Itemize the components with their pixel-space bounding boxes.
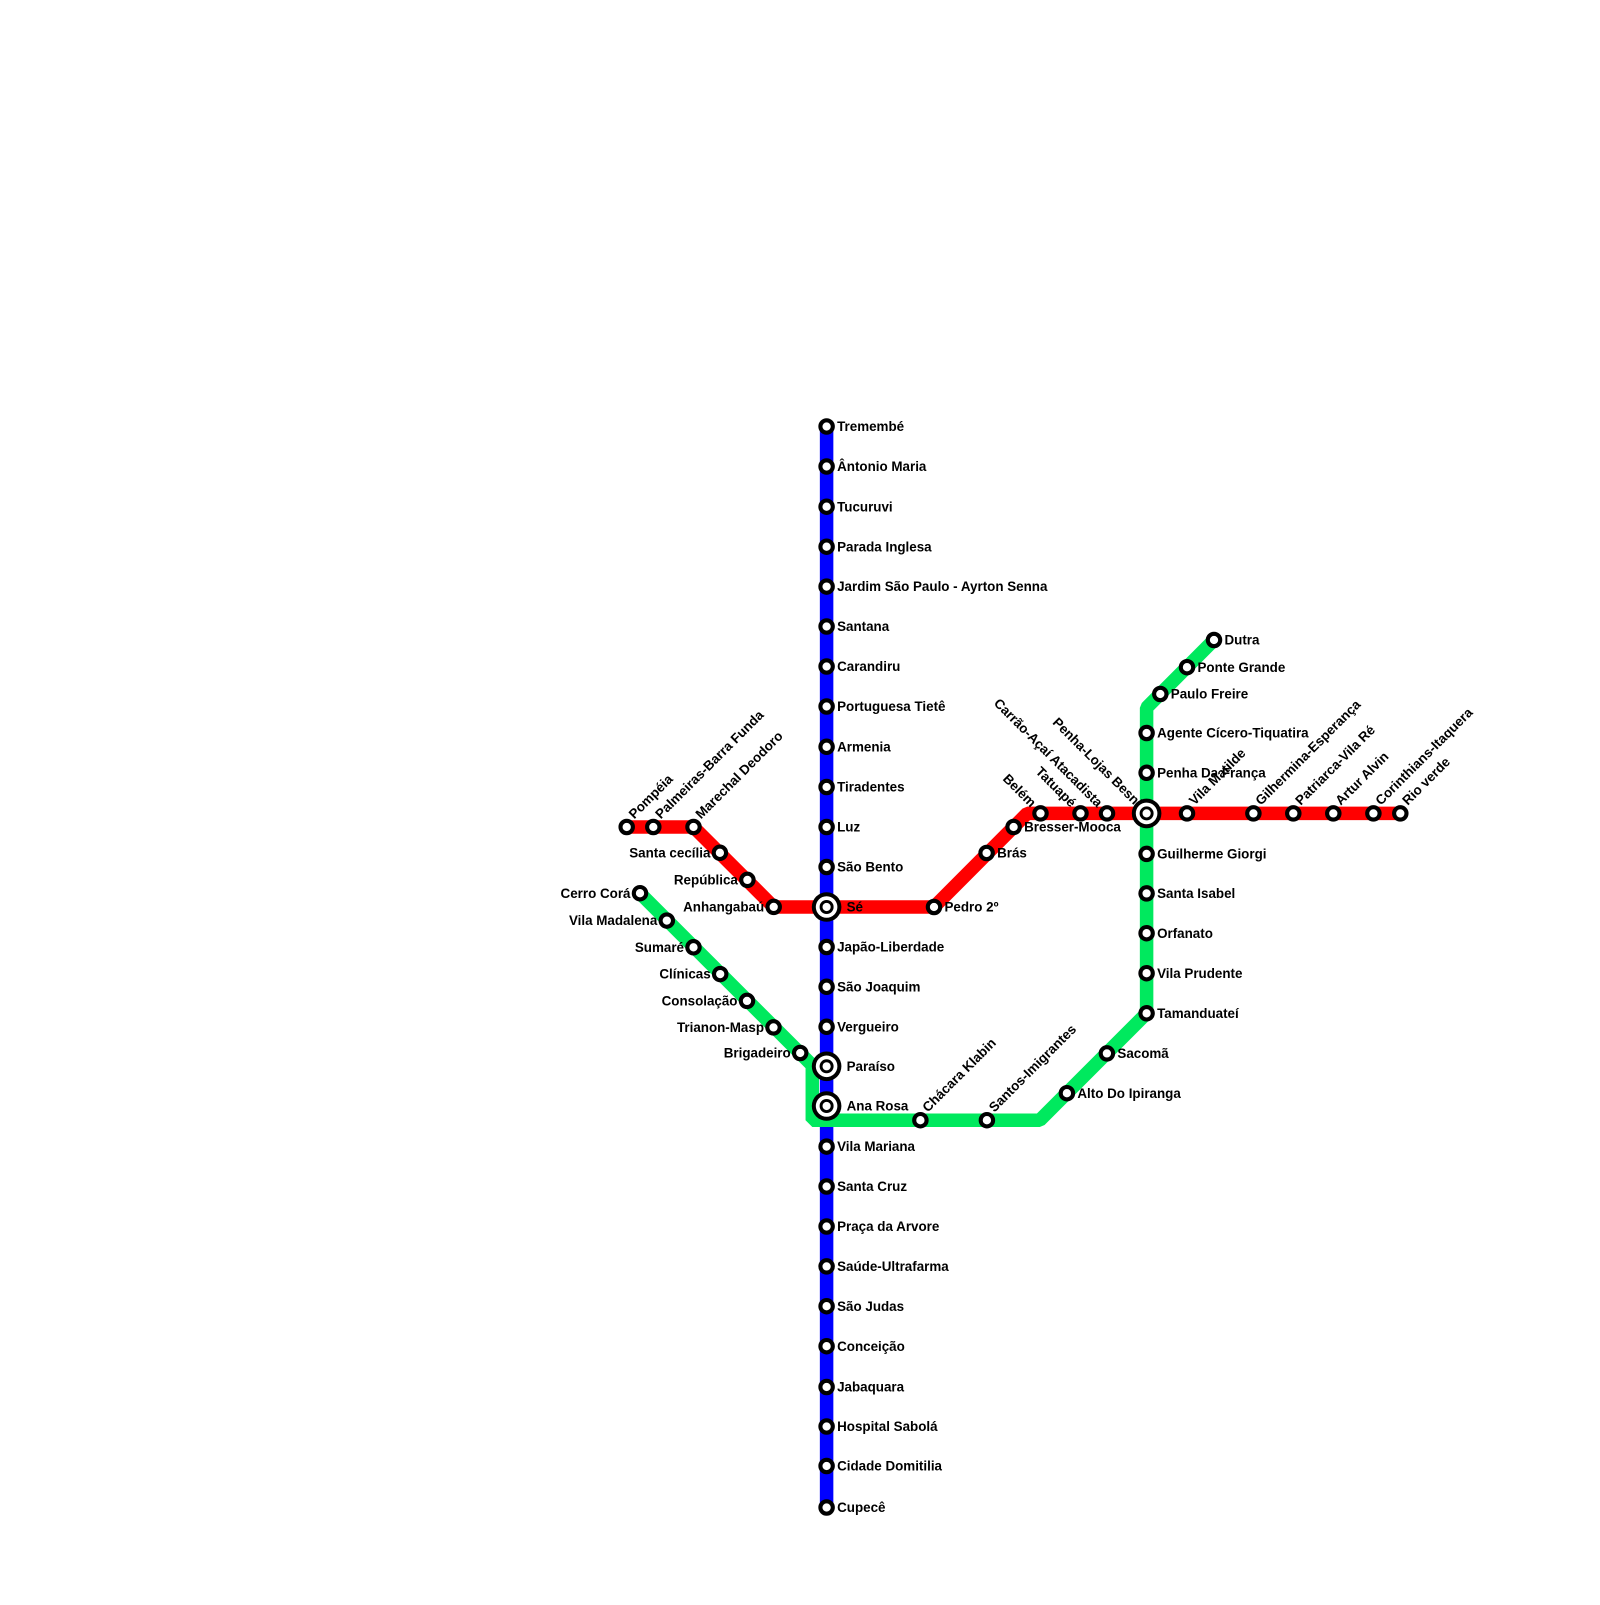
station Santana — [820, 619, 889, 634]
station Japão-Liberdade — [820, 940, 944, 955]
station Guilherme Giorgi — [1140, 847, 1266, 862]
svg-text:Jabaquara: Jabaquara — [837, 1380, 905, 1395]
station Belém — [1000, 771, 1047, 820]
station Tiradentes — [820, 780, 904, 795]
svg-text:Vila Mariana: Vila Mariana — [837, 1139, 915, 1154]
station Portuguesa Tietê — [820, 699, 945, 714]
svg-text:Ântonio Maria: Ântonio Maria — [837, 459, 927, 474]
svg-text:Tucuruvi: Tucuruvi — [837, 499, 893, 514]
svg-text:Japão-Liberdade: Japão-Liberdade — [837, 940, 944, 955]
svg-text:Santa Isabel: Santa Isabel — [1157, 886, 1235, 901]
svg-text:Ponte Grande: Ponte Grande — [1198, 660, 1286, 675]
svg-text:Praça da Arvore: Praça da Arvore — [837, 1219, 939, 1234]
station Vergueiro — [820, 1019, 898, 1034]
svg-text:Penha Da França: Penha Da França — [1157, 765, 1266, 780]
station Dutra — [1208, 633, 1260, 648]
station Palmeiras-Barra Funda — [647, 707, 767, 833]
interchange station Sé — [812, 892, 863, 922]
svg-text:Santana: Santana — [837, 619, 890, 634]
station Parada Inglesa — [820, 539, 932, 554]
station Tamanduateí — [1140, 1006, 1240, 1021]
station Santos-Imigrantes — [981, 1022, 1079, 1127]
svg-text:São Bento: São Bento — [837, 860, 903, 875]
station Cupecê — [820, 1500, 885, 1515]
station São Joaquim — [820, 979, 920, 994]
svg-text:Tamanduateí: Tamanduateí — [1157, 1006, 1240, 1021]
svg-text:Orfanato: Orfanato — [1157, 926, 1213, 941]
svg-text:Sacomã: Sacomã — [1117, 1046, 1169, 1061]
svg-text:São Judas: São Judas — [837, 1299, 904, 1314]
svg-text:Agente Cícero-Tiquatira: Agente Cícero-Tiquatira — [1157, 726, 1309, 741]
station Clínicas — [659, 967, 726, 982]
station Vila Mariana — [820, 1139, 915, 1154]
interchange station Paraíso — [812, 1052, 895, 1082]
station Tatuapé — [1033, 764, 1087, 820]
svg-text:Carandiru: Carandiru — [837, 659, 900, 674]
green metro line 2 (Cerro Corá–Dutra) — [640, 640, 1214, 1120]
station Praça da Arvore — [820, 1219, 939, 1234]
station Gilhermina-Esperança — [1247, 697, 1364, 820]
station Sacomã — [1101, 1046, 1170, 1061]
station Vila Prudente — [1140, 966, 1242, 981]
station Paulo Freire — [1154, 687, 1248, 702]
station República — [674, 873, 754, 888]
svg-text:Armenia: Armenia — [837, 739, 891, 754]
station Jardim São Paulo - Ayrton Senna — [820, 579, 1048, 594]
station Saúde-Ultrafarma — [820, 1259, 949, 1274]
station Agente Cícero-Tiquatira — [1140, 726, 1309, 741]
svg-text:Cidade Domitilia: Cidade Domitilia — [837, 1459, 942, 1474]
station Brigadeiro — [724, 1046, 807, 1061]
svg-text:Dutra: Dutra — [1225, 633, 1261, 648]
svg-text:Santa cecília: Santa cecília — [629, 845, 711, 860]
svg-text:Guilherme Giorgi: Guilherme Giorgi — [1157, 847, 1266, 862]
station Ponte Grande — [1181, 660, 1286, 675]
blue metro line 1 (Tremembé–Cupecê) — [820, 427, 834, 1508]
station Artur Alvin — [1327, 749, 1391, 820]
svg-text:Cupecê: Cupecê — [837, 1500, 885, 1515]
svg-text:Trianon-Masp: Trianon-Masp — [677, 1020, 764, 1035]
svg-text:Alto Do Ipiranga: Alto Do Ipiranga — [1077, 1086, 1181, 1101]
station Marechal Deodoro — [687, 728, 785, 833]
station Santa Isabel — [1140, 886, 1235, 901]
svg-text:São Joaquim: São Joaquim — [837, 979, 920, 994]
svg-text:Consolação: Consolação — [662, 994, 738, 1009]
svg-text:Conceição: Conceição — [837, 1339, 905, 1354]
interchange station Ana Rosa — [812, 1091, 909, 1121]
station Carrão-Açaí Atacadista — [991, 696, 1113, 820]
red metro line 3 (Pompéia–Rio verde) — [627, 813, 1401, 907]
svg-text:Brás: Brás — [997, 846, 1027, 861]
station Armenia — [820, 739, 891, 754]
svg-text:Santa Cruz: Santa Cruz — [837, 1179, 907, 1194]
svg-text:Hospital Sabolá: Hospital Sabolá — [837, 1419, 938, 1434]
svg-text:Clínicas: Clínicas — [659, 967, 710, 982]
station Consolação — [662, 994, 754, 1009]
svg-text:Anhangabaú: Anhangabaú — [683, 900, 764, 915]
station Cerro Corá — [561, 886, 647, 901]
station Corinthians-Itaquera — [1367, 704, 1476, 819]
station Bresser-Mooca — [1007, 820, 1121, 835]
svg-text:Luz: Luz — [837, 820, 860, 835]
svg-text:Paraíso: Paraíso — [847, 1059, 895, 1074]
station Hospital Sabolá — [820, 1419, 938, 1434]
svg-text:Vergueiro: Vergueiro — [837, 1019, 899, 1034]
svg-text:Bresser-Mooca: Bresser-Mooca — [1024, 820, 1121, 835]
svg-text:Sé: Sé — [847, 900, 863, 915]
svg-text:Paulo Freire: Paulo Freire — [1171, 687, 1248, 702]
station Santa cecília — [629, 845, 726, 860]
station Pedro 2º — [928, 900, 999, 915]
station Penha Da França — [1140, 765, 1266, 780]
station Vila Matilde — [1181, 745, 1249, 819]
station São Judas — [820, 1299, 904, 1314]
station Tremembé — [820, 419, 904, 434]
station Chácara Klabin — [914, 1035, 999, 1126]
station Tucuruvi — [820, 499, 892, 514]
station Patriarca-Vila Ré — [1287, 722, 1378, 819]
svg-text:Vila Madalena: Vila Madalena — [569, 913, 658, 928]
interchange station Penha-Lojas Besni — [1050, 715, 1162, 829]
station Cidade Domitilia — [820, 1459, 942, 1474]
station Alto Do Ipiranga — [1061, 1086, 1182, 1101]
station Carandiru — [820, 659, 900, 674]
station Luz — [820, 820, 860, 835]
svg-text:Portuguesa Tietê: Portuguesa Tietê — [837, 699, 945, 714]
svg-text:Vila Prudente: Vila Prudente — [1157, 966, 1242, 981]
svg-text:Cerro Corá: Cerro Corá — [561, 886, 632, 901]
svg-text:Pedro 2º: Pedro 2º — [945, 900, 999, 915]
station Orfanato — [1140, 926, 1213, 941]
station Rio verde — [1394, 754, 1453, 819]
station Ântonio Maria — [820, 459, 927, 474]
station Trianon-Masp — [677, 1020, 780, 1035]
station Anhangabaú — [683, 900, 780, 915]
svg-text:Ana Rosa: Ana Rosa — [847, 1099, 909, 1114]
station Sumaré — [635, 940, 700, 955]
svg-text:Jardim São Paulo - Ayrton Senn: Jardim São Paulo - Ayrton Senna — [837, 579, 1048, 594]
svg-text:Brigadeiro: Brigadeiro — [724, 1046, 791, 1061]
station Brás — [980, 846, 1026, 861]
svg-text:Sumaré: Sumaré — [635, 940, 684, 955]
svg-text:República: República — [674, 873, 739, 888]
svg-text:Tiradentes: Tiradentes — [837, 780, 904, 795]
svg-text:Parada Inglesa: Parada Inglesa — [837, 539, 932, 554]
station Santa Cruz — [820, 1179, 907, 1194]
station São Bento — [820, 860, 903, 875]
station Pompéia — [621, 771, 677, 833]
svg-text:Tremembé: Tremembé — [837, 419, 904, 434]
station Conceição — [820, 1339, 904, 1354]
station Jabaquara — [820, 1380, 904, 1395]
svg-text:Saúde-Ultrafarma: Saúde-Ultrafarma — [837, 1259, 949, 1274]
station Vila Madalena — [569, 913, 673, 928]
